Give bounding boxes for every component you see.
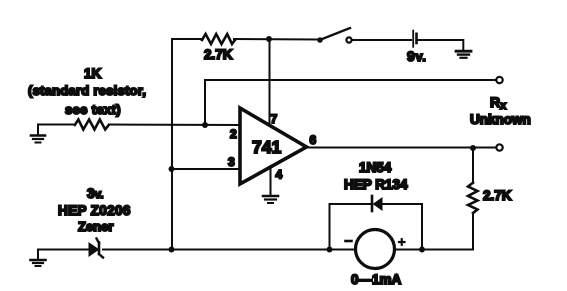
svg-text:3v.: 3v. <box>87 186 104 201</box>
wire diode bracket left stub <box>329 204 331 250</box>
svg-text:741: 741 <box>252 137 281 157</box>
node junction pin2 wire <box>202 122 208 128</box>
zener diode D2 HEP Z0206 <box>89 239 103 258</box>
svg-text:see text): see text) <box>65 102 121 117</box>
wire pin4 to ground <box>270 166 272 195</box>
node junction bus/pin3 wire <box>169 166 175 172</box>
label plus <box>399 239 405 245</box>
resistor R 1K zigzag <box>75 120 109 130</box>
svg-text:1K: 1K <box>84 66 102 81</box>
node junction diode left stub <box>327 247 333 253</box>
wire Rx top feed y=80 <box>205 79 496 81</box>
op-amp U1 741 triangle <box>240 108 307 184</box>
ground (pin4) <box>263 196 278 203</box>
node junction diode right stub <box>419 247 425 253</box>
wire vertical left bus x=172 <box>171 39 173 250</box>
wire diode bracket right stub <box>421 204 423 250</box>
svg-text:(standard resistor,: (standard resistor, <box>28 83 146 98</box>
wire zener to meter <box>103 249 356 251</box>
svg-text:9v.: 9v. <box>407 48 427 64</box>
svg-text:0—1mA: 0—1mA <box>351 272 402 287</box>
terminal Rx top <box>496 77 502 83</box>
label minus <box>346 240 352 243</box>
svg-text:2.7K: 2.7K <box>483 188 512 203</box>
meter M1 0-1mA <box>356 230 395 269</box>
wire battery to ground corner <box>418 40 464 50</box>
ground (1K input) <box>31 125 45 143</box>
wire ground to zener <box>38 249 89 251</box>
wire meter to 2.7K <box>395 249 474 251</box>
terminal Rx bottom <box>496 144 502 150</box>
resistor R load 2.7K vertical <box>468 148 478 250</box>
svg-text:Zener: Zener <box>78 219 113 234</box>
wire pin3 from bus <box>172 168 241 170</box>
ground (zener) <box>31 250 46 267</box>
svg-text:6: 6 <box>310 133 317 147</box>
wire top left segment <box>172 38 202 40</box>
wire switch to battery <box>352 39 411 41</box>
svg-text:HEP R134: HEP R134 <box>344 177 408 192</box>
wire 1K to op-amp pin2 <box>109 124 240 127</box>
svg-text:3: 3 <box>228 155 235 169</box>
wire vertical pin2 tap x=205 <box>204 80 206 125</box>
switch S1 <box>317 28 351 43</box>
svg-text:7: 7 <box>271 112 278 126</box>
wire output pin6 <box>306 147 496 149</box>
wire resistor to switch <box>234 38 318 41</box>
wire diode bracket top right <box>382 203 422 205</box>
battery B1 9v <box>413 31 416 47</box>
ground (battery) <box>456 51 471 58</box>
svg-text:4: 4 <box>276 168 283 182</box>
wire pin7 supply <box>269 39 271 126</box>
wire diode bracket top left <box>330 203 371 205</box>
wire ground to resistor 1K <box>38 124 75 126</box>
svg-text:Rx: Rx <box>490 94 507 112</box>
svg-text:Unknown: Unknown <box>470 112 531 127</box>
svg-text:HEP Z0206: HEP Z0206 <box>58 203 131 218</box>
node junction bus/bottom wire <box>169 247 175 253</box>
node junction output/2.7K <box>470 145 476 151</box>
node junction top (pin7 tap) <box>266 36 272 42</box>
svg-text:2: 2 <box>230 127 237 141</box>
svg-text:2.7K: 2.7K <box>204 47 233 62</box>
svg-text:1N54: 1N54 <box>359 160 392 175</box>
diode D1 1N54 <box>372 196 382 211</box>
resistor R feedback 2.7K zigzag <box>202 34 235 44</box>
